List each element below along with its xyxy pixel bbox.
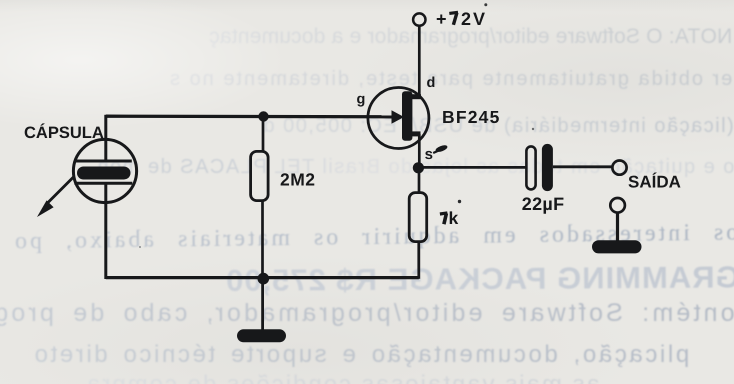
svg-text:CÁPSULA: CÁPSULA: [24, 123, 104, 142]
wire: return terminal to ground: [616, 213, 619, 245]
value label 1k: [440, 200, 461, 228]
wire: top rail corner down to capsule: [104, 115, 107, 160]
node A: gate / R1 / capsule: [258, 111, 268, 121]
ground GND2: [592, 240, 642, 253]
bleed-through text line 1: [209, 25, 732, 49]
wire: drain stub to source junction: [418, 134, 421, 168]
bleed-through text line 9: [85, 371, 600, 384]
node C: source / R2 / C1 junction: [413, 162, 424, 173]
wire: node B to ground: [261, 279, 264, 331]
resistor R1 2M2: [251, 117, 269, 279]
bleed-through text line 6: [225, 259, 734, 299]
wire: top rail (capsule to gate): [106, 115, 393, 119]
bleed-through text line 3: [262, 115, 734, 138]
wire: capacitor to output terminal: [553, 165, 612, 168]
bleed-through text line 8: [32, 341, 689, 369]
svg-text:2V: 2V: [461, 9, 487, 29]
bleed-through text line 7: [0, 299, 734, 328]
svg-text:SAÍDA: SAÍDA: [628, 172, 681, 192]
svg-text:22µF: 22µF: [522, 194, 565, 214]
label +12V: [436, 9, 487, 29]
svg-text:s: s: [425, 146, 433, 163]
wire: node C to capacitor C1: [419, 166, 527, 169]
svg-text:g: g: [357, 92, 366, 108]
svg-text:2M2: 2M2: [280, 170, 316, 190]
wire: capsule lower lead: [104, 184, 107, 279]
node B: R1 / ground junction: [258, 273, 270, 285]
svg-text:+: +: [436, 9, 449, 29]
ink specks: [139, 3, 534, 248]
wire: +12V to drain: [418, 27, 421, 98]
resistor R2 1k: [409, 168, 427, 279]
svg-text:BF245: BF245: [442, 107, 501, 127]
terminal SAÍDA: [612, 161, 626, 175]
terminal +12V: [413, 13, 425, 25]
arrow pointing to capsule: [37, 177, 74, 218]
electret capsule MIC1: [73, 139, 136, 202]
svg-text:k: k: [449, 208, 459, 228]
terminal output return: [610, 198, 625, 213]
ground GND1: [237, 329, 286, 342]
bleed-through text line 2: [168, 68, 732, 91]
bleed-through text line 5: [12, 220, 734, 256]
transistor Q1 BF245: [368, 88, 429, 149]
wire: bottom rail: [106, 276, 419, 279]
svg-text:d: d: [427, 75, 436, 91]
capacitor C1 (electrolytic): [526, 144, 553, 191]
bleed-through text line 4: [96, 156, 734, 179]
pen mark near s: [433, 144, 448, 153]
